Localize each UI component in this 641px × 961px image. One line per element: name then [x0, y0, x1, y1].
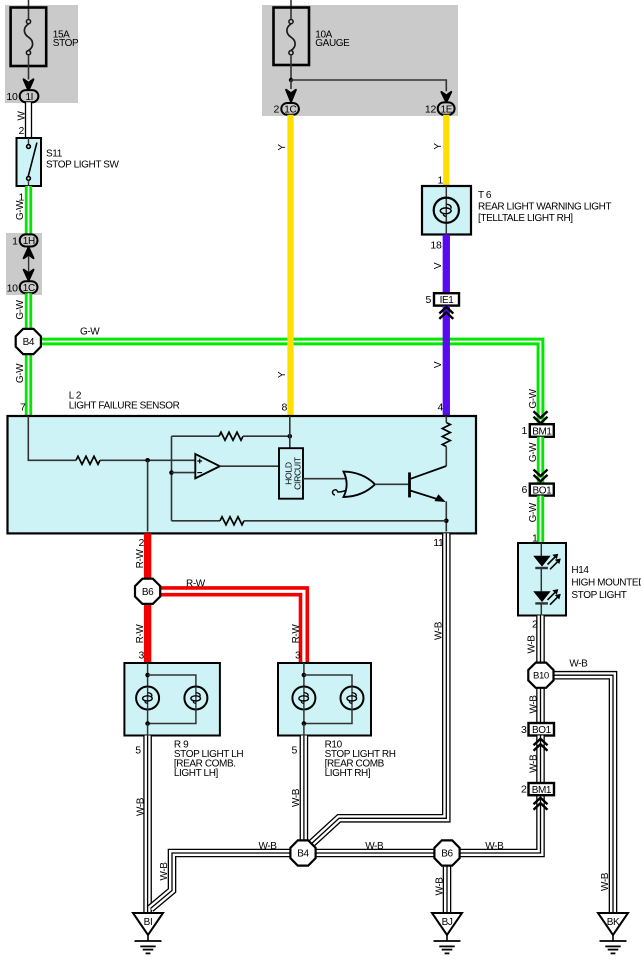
connector BM1 upper	[530, 424, 554, 437]
svg-text:W-B: W-B	[365, 841, 384, 852]
svg-text:W-B: W-B	[259, 841, 278, 852]
svg-text:G-W: G-W	[15, 200, 26, 220]
svg-text:W-B: W-B	[434, 877, 445, 896]
label W-B	[135, 797, 146, 816]
wire W-B from L2 pin 11 to B4	[312, 533, 447, 843]
wire W-B from H14 to B10	[536, 616, 545, 664]
pin 1 of BM1	[521, 425, 527, 437]
label R-W	[135, 549, 146, 569]
svg-text:G-W: G-W	[15, 363, 26, 383]
pin 4 of L2	[437, 402, 443, 414]
pin 5 of R10	[291, 745, 297, 757]
op-amp U1	[195, 454, 220, 478]
wire G-W branch from B4 to BM1	[41, 342, 541, 425]
node at pin 8 line	[288, 434, 293, 439]
svg-text:HIGH MOUNTED: HIGH MOUNTED	[571, 578, 641, 589]
node at inverting input	[169, 470, 174, 475]
wire op-amp to hold circuit	[220, 465, 279, 467]
label S11 STOP LIGHT SW	[46, 149, 120, 171]
wire Y from 1E to T6	[443, 115, 449, 186]
connector oval 1I	[20, 90, 39, 103]
svg-text:1: 1	[521, 425, 527, 437]
svg-text:W-B: W-B	[135, 797, 146, 816]
wire R-W branch B6 to R10 pin 3	[160, 591, 304, 663]
wire W-B from B10 right to ground BK	[554, 675, 613, 913]
svg-text:BK: BK	[607, 917, 620, 928]
svg-text:R-W: R-W	[135, 624, 146, 644]
label R-W	[135, 624, 146, 644]
svg-text:STOP: STOP	[53, 38, 79, 49]
pin 7 of L2	[20, 402, 26, 414]
svg-text:IE1: IE1	[440, 295, 455, 306]
LED unit H14 HIGH MOUNTED STOP LIGHT	[518, 543, 566, 616]
svg-text:GAUGE: GAUGE	[315, 38, 350, 49]
wire resistor to pin 4	[445, 416, 447, 423]
wire collector to resistor	[445, 447, 447, 467]
wire W-B from R10 pin 5 to B4	[300, 736, 309, 841]
wire W-B from B10 down to BO1	[536, 687, 545, 723]
label G-W lower	[528, 502, 539, 522]
svg-text:B6: B6	[441, 848, 453, 859]
wire W-B from B6 to ground BJ	[443, 866, 452, 913]
svg-text:LIGHT LH]: LIGHT LH]	[174, 768, 219, 779]
svg-text:BM1: BM1	[532, 426, 552, 437]
pin 18 of T6	[430, 240, 442, 252]
wire R-W from L2 pin 2 to B6	[144, 533, 151, 579]
chevron arrows below IE1	[439, 307, 453, 319]
svg-text:1: 1	[437, 175, 443, 187]
wire W from 1I to S11	[25, 102, 32, 138]
svg-text:5: 5	[425, 294, 431, 306]
pin 3 of BO1 lower	[521, 724, 527, 736]
svg-text:LIGHT RH]: LIGHT RH]	[325, 768, 371, 779]
ground BK	[598, 913, 628, 953]
resistor feedback bottom	[220, 517, 244, 525]
junction block panel right	[262, 5, 458, 116]
connector oval 1C lower	[20, 281, 38, 294]
node at pin 2 branch	[145, 458, 150, 463]
sensor L2 box	[8, 416, 477, 533]
pin 1 of 1H	[12, 236, 18, 248]
svg-text:B4: B4	[23, 337, 35, 348]
pin 5 of IE1	[425, 294, 431, 306]
wire G-W BO1 to H14	[537, 496, 544, 543]
bulb R9 STOP LIGHT LH	[124, 663, 219, 736]
wire inside panel to 1E	[291, 80, 446, 91]
resistor feedback top	[219, 432, 243, 440]
svg-text:3: 3	[295, 650, 301, 662]
label W-B	[528, 754, 539, 773]
fuse 15A STOP	[11, 8, 47, 80]
feedback vertical wire	[171, 436, 173, 521]
wire feedback bottom to emitter node	[244, 520, 446, 522]
label G-W	[15, 200, 26, 220]
wire G-W from S11 to 1H	[25, 186, 32, 234]
svg-text:2: 2	[18, 125, 24, 137]
svg-text:W-B: W-B	[526, 635, 537, 654]
svg-text:BJ: BJ	[442, 917, 453, 928]
label W-B	[159, 862, 170, 881]
wire W-B BO1 to BM1 lower	[536, 736, 545, 784]
svg-text:10: 10	[6, 91, 18, 103]
top feedback wire	[172, 435, 220, 437]
connector BO1 upper	[530, 484, 554, 497]
svg-text:5: 5	[291, 745, 297, 757]
connector BM1 lower	[529, 783, 555, 796]
svg-text:BM1: BM1	[532, 785, 552, 796]
svg-text:G-W: G-W	[528, 388, 539, 408]
svg-text:W-B: W-B	[291, 788, 302, 807]
switch S11 STOP LIGHT SW	[17, 138, 42, 186]
label W-B	[433, 621, 444, 640]
node below fuse 10A	[289, 78, 293, 82]
svg-text:G-W: G-W	[528, 442, 539, 462]
wire Y from 1C to L2 pin 8	[287, 115, 293, 416]
junction B6 lower	[434, 840, 459, 865]
wire supply to fuse 15A	[28, 0, 30, 19]
wire G-W from B4 down to L2 pin 7	[25, 354, 32, 416]
svg-text:W-B: W-B	[159, 862, 170, 881]
ground BJ	[432, 913, 462, 953]
svg-text:[TELLTALE LIGHT RH]: [TELLTALE LIGHT RH]	[478, 213, 573, 224]
label W	[16, 111, 27, 121]
connector oval 1E	[438, 102, 455, 115]
svg-text:10: 10	[7, 283, 19, 295]
wire W-B from B4 left to ground BI	[151, 853, 291, 909]
wire from pin 7 inside L2	[28, 416, 76, 460]
ground BI	[133, 913, 163, 953]
label W-B	[528, 695, 539, 714]
svg-text:CIRCUIT: CIRCUIT	[293, 456, 303, 490]
svg-text:BO1: BO1	[532, 485, 552, 496]
label Y	[277, 371, 288, 378]
svg-text:R-W: R-W	[135, 549, 146, 569]
chevron arrows above BO1	[534, 470, 548, 482]
junction block panel left	[5, 5, 78, 103]
wire supply to fuse 10A	[290, 0, 292, 19]
svg-text:S11: S11	[46, 149, 63, 160]
pin 10 of 1I	[6, 91, 18, 103]
wire G-W BM1 to BO1	[537, 437, 544, 484]
pin 2 of 1C	[273, 104, 279, 116]
label G-W	[15, 299, 26, 319]
svg-text:B4: B4	[297, 848, 309, 859]
svg-text:3: 3	[138, 650, 144, 662]
wire resistor to op-amp	[100, 459, 195, 461]
svg-text:R-W: R-W	[186, 578, 206, 589]
label G-W right chain	[528, 442, 539, 462]
bulb R10 STOP LIGHT RH	[278, 663, 371, 736]
svg-text:G-W: G-W	[528, 502, 539, 522]
pin 2 of H14	[532, 619, 538, 631]
svg-text:W-B: W-B	[485, 841, 504, 852]
svg-text:W-B: W-B	[528, 695, 539, 714]
fuse 10A GAUGE	[274, 8, 310, 81]
OR gate	[333, 472, 375, 497]
svg-text:1C: 1C	[284, 105, 296, 116]
svg-text:H14: H14	[571, 565, 589, 576]
wire stub to 1C	[290, 80, 292, 89]
connector oval 1C	[281, 103, 299, 116]
junction B4 lower	[290, 840, 315, 865]
double arrow between 1H and 1C	[24, 247, 34, 280]
pin 8 of L2	[281, 402, 287, 414]
junction B4	[16, 329, 41, 354]
hold circuit box	[279, 448, 303, 499]
svg-text:1: 1	[12, 236, 18, 248]
svg-text:1C: 1C	[23, 283, 35, 294]
label 15A STOP	[53, 30, 79, 50]
connector oval 1H	[20, 234, 38, 247]
chevron arrows below BM1	[534, 798, 548, 810]
pin 2 of L2	[138, 537, 144, 549]
svg-text:W-B: W-B	[433, 621, 444, 640]
pin 12 of 1E	[425, 104, 437, 116]
svg-text:7: 7	[20, 402, 26, 414]
label G-W near turn	[528, 388, 539, 408]
wire emitter down to pin 11	[445, 501, 447, 531]
svg-text:2: 2	[138, 537, 144, 549]
label R-W horizontal	[186, 578, 206, 589]
pin 1 of H14	[532, 533, 538, 545]
transistor Q1	[410, 466, 447, 501]
wire V from IE1 to L2 pin 4	[443, 306, 450, 416]
svg-text:W: W	[16, 111, 27, 121]
pin 1 of S11	[18, 192, 24, 204]
label L2 LIGHT FAILURE SENSOR	[69, 391, 180, 412]
svg-text:R-W: R-W	[291, 624, 302, 644]
arrow into connector 1E	[441, 92, 451, 102]
svg-text:2: 2	[521, 784, 527, 796]
svg-text:W-B: W-B	[528, 754, 539, 773]
resistor collector	[442, 423, 450, 447]
label Y	[433, 143, 444, 150]
label R9	[174, 740, 243, 780]
svg-text:5: 5	[135, 745, 141, 757]
wire V from T6 to IE1	[443, 235, 450, 294]
svg-text:1I: 1I	[26, 92, 34, 103]
chevron arrows above BM1	[534, 411, 548, 423]
connector IE1	[434, 293, 459, 306]
arrow into connector 1C	[286, 90, 296, 102]
label 10A GAUGE	[315, 30, 350, 50]
svg-text:BO1: BO1	[532, 725, 552, 736]
wire G-W from 1C to B4	[25, 293, 32, 329]
svg-text:Y: Y	[433, 143, 444, 150]
pin 11 of L2	[433, 537, 444, 549]
svg-text:Y: Y	[277, 371, 288, 378]
svg-text:BI: BI	[144, 917, 153, 928]
pin 1 of T6	[437, 175, 443, 187]
svg-text:2: 2	[273, 104, 279, 116]
resistor input	[76, 456, 100, 464]
chevron arrows below BO1	[534, 739, 548, 751]
svg-text:12: 12	[425, 104, 437, 116]
label G-W horizontal	[80, 327, 100, 338]
pin 2 of BM1 lower	[521, 784, 527, 796]
label V	[433, 262, 444, 269]
wire pin 8 to hold circuit	[289, 416, 291, 448]
label W-B horizontal left	[259, 841, 278, 852]
svg-text:B10: B10	[533, 671, 549, 682]
label H14	[571, 565, 641, 601]
svg-text:6: 6	[521, 484, 527, 496]
connector BO1 lower	[529, 723, 555, 736]
wire W-B from R9 pin 5 to ground BI	[143, 736, 152, 914]
svg-text:REAR LIGHT WARNING LIGHT: REAR LIGHT WARNING LIGHT	[478, 202, 611, 213]
bulb T6 REAR LIGHT WARNING LIGHT	[422, 186, 471, 235]
svg-text:1E: 1E	[441, 104, 453, 115]
svg-text:Y: Y	[277, 144, 288, 151]
label G-W	[15, 363, 26, 383]
svg-text:LIGHT FAILURE SENSOR: LIGHT FAILURE SENSOR	[69, 401, 180, 412]
pin 3 of R10	[295, 650, 301, 662]
label W-B	[526, 635, 537, 654]
label R10	[325, 740, 396, 780]
svg-text:3: 3	[521, 724, 527, 736]
svg-text:STOP LIGHT: STOP LIGHT	[571, 590, 626, 601]
wire W-B from B4 to B6	[316, 849, 435, 858]
svg-text:W-B: W-B	[600, 872, 611, 891]
svg-text:B6: B6	[142, 587, 154, 598]
label W-B	[434, 877, 445, 896]
label T6	[478, 190, 611, 224]
pin 3 of R9	[138, 650, 144, 662]
svg-text:1H: 1H	[23, 236, 35, 247]
svg-text:STOP LIGHT SW: STOP LIGHT SW	[46, 160, 120, 171]
svg-text:4: 4	[437, 402, 443, 414]
connector panel 1H/1C	[6, 233, 42, 295]
node at emitter feedback	[444, 519, 449, 524]
label W-B right wire	[600, 872, 611, 891]
label Y	[277, 144, 288, 151]
junction B6	[135, 579, 160, 604]
wire OR gate to transistor base	[375, 483, 408, 485]
label W-B	[291, 788, 302, 807]
svg-text:18: 18	[430, 240, 442, 252]
wire to inverting input	[172, 472, 196, 474]
wire feedback to pin 8 node	[243, 435, 290, 437]
svg-text:G-W: G-W	[80, 327, 100, 338]
label W-B horizontal mid	[365, 841, 384, 852]
pin 6 of BO1	[521, 484, 527, 496]
svg-text:V: V	[433, 262, 444, 269]
bottom feedback wire	[172, 520, 221, 522]
label W-B horizontal right	[485, 841, 504, 852]
label V	[433, 361, 444, 368]
pin 2 of S11	[18, 125, 24, 137]
svg-text:G-W: G-W	[15, 299, 26, 319]
svg-text:8: 8	[281, 402, 287, 414]
wire R-W from B6 to R9 pin 3	[144, 604, 151, 664]
label W-B horizontal top right	[569, 659, 588, 670]
wire node to pin 2	[147, 460, 149, 531]
pin 5 of R9	[135, 745, 141, 757]
junction B10	[528, 663, 553, 688]
label R-W	[291, 624, 302, 644]
pin 10 of 1C	[7, 283, 19, 295]
svg-text:V: V	[433, 361, 444, 368]
wire W-B from B6 right up to BM1	[460, 796, 541, 854]
svg-text:W-B: W-B	[569, 659, 588, 670]
wire hold circuit to OR gate	[303, 478, 345, 480]
arrow into connector 1I	[24, 79, 34, 90]
svg-text:T 6: T 6	[478, 190, 492, 201]
